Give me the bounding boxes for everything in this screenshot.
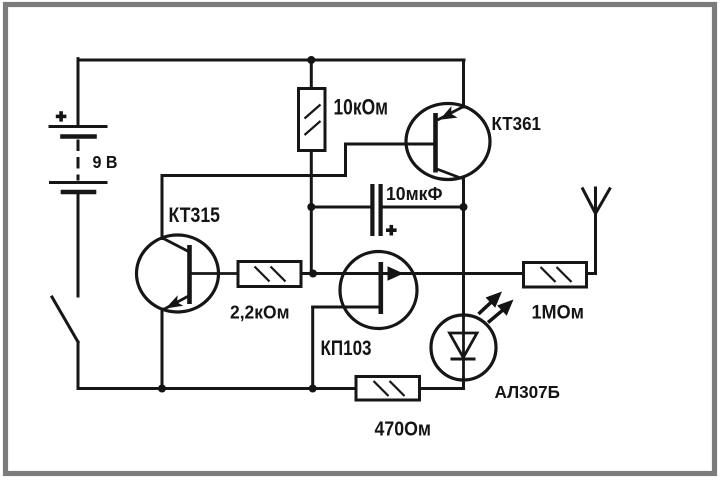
wire switch to bottom rail [77,342,80,389]
svg-text:1МОм: 1МОм [532,302,585,324]
resistor R3 1МОм [524,263,587,288]
wire R10k bottom down [310,150,313,274]
wire LED bottom to rail [462,379,465,389]
wire KT361 emitter up to rail [462,60,465,107]
wire top rail [78,59,464,62]
svg-text:470Ом: 470Ом [375,419,432,441]
svg-text:10мкФ: 10мкФ [386,184,443,204]
transistor VT3 КП103 field-effect [340,252,417,329]
svg-text:10кОм: 10кОм [334,95,389,120]
resistor R2 2,2кОм [238,262,301,287]
battery GB1 plate short bottom [63,190,94,195]
wire bottom rail right of R470 [419,387,464,390]
wire bottom rail left [78,387,357,390]
wire R1M to antenna [587,214,596,274]
junction dot cap left [307,203,315,211]
wire jog up [344,144,347,176]
junction dot rail FET lead [309,385,317,393]
wire battery bottom lead [77,194,80,296]
svg-text:КТ361: КТ361 [492,113,542,134]
junction dot top rail R10k [307,56,315,64]
svg-text:9 В: 9 В [93,152,118,172]
wire KT361 collector down to LED [462,178,465,316]
wire KT315 collector up [161,176,164,239]
transistor VT1 КТ315 [137,235,239,312]
wire to KT361 base [346,143,435,146]
wire KT315 emitter to rail [161,309,164,389]
battery GB1 dashed middle link [77,141,80,179]
battery GB1 9V plate long top [50,125,106,128]
wire collector horizontal [162,174,346,177]
svg-text:АЛ307Б: АЛ307Б [495,382,561,402]
capacitor C1 10мкФ [372,184,380,236]
transistor VT2 КТ361 [406,104,490,180]
capacitor plus polarity [386,225,397,236]
junction dot gate wire [309,270,317,278]
wire R10k top [310,60,313,90]
svg-text:2,2кОм: 2,2кОм [230,302,290,323]
wire battery top lead [77,59,80,126]
wire capacitor right [382,206,463,209]
svg-text:КП103: КП103 [321,337,372,360]
junction dot cap right [460,203,468,211]
wire FET lead down to rail [311,307,314,389]
battery GB1 plate long bottom [51,181,107,184]
battery plus label [56,111,67,121]
wire capacitor left [311,206,371,209]
battery GB1 plate short top [63,134,95,139]
resistor R1 10кОм [299,89,326,151]
svg-text:КТ315: КТ315 [169,204,221,227]
switch SA1 blade [52,297,78,342]
wire FET lower lead [313,306,381,309]
antenna WA1 [582,187,611,274]
LED VD1 АЛ307Б [431,292,514,381]
wire gate long horizontal [301,272,524,275]
junction dot rail KT315 emitter [158,385,166,393]
resistor R4 470Ом [356,377,420,401]
